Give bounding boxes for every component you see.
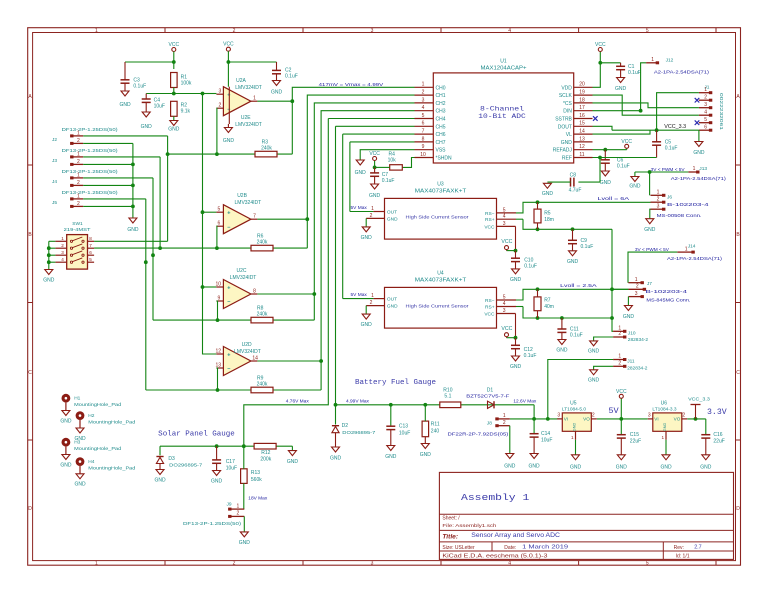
svg-text:R11: R11 xyxy=(431,421,440,427)
svg-text:J13: J13 xyxy=(699,166,707,172)
svg-text:5: 5 xyxy=(646,561,649,567)
svg-text:100k: 100k xyxy=(181,81,192,87)
svg-text:+: + xyxy=(227,211,230,217)
svg-text:18m: 18m xyxy=(544,217,554,223)
svg-text:3: 3 xyxy=(503,221,506,227)
svg-text:Battery Fuel Gauge: Battery Fuel Gauge xyxy=(355,379,436,387)
svg-text:OUT: OUT xyxy=(387,210,397,216)
svg-text:1: 1 xyxy=(61,236,64,241)
svg-text:CH6: CH6 xyxy=(436,132,446,138)
svg-text:C: C xyxy=(28,370,32,376)
svg-text:1 March 2019: 1 March 2019 xyxy=(522,544,568,550)
svg-text:5: 5 xyxy=(218,207,221,213)
svg-text:4: 4 xyxy=(704,110,707,116)
svg-text:8: 8 xyxy=(253,289,256,295)
svg-text:OUT: OUT xyxy=(387,297,397,303)
svg-text:18: 18 xyxy=(579,97,585,103)
svg-text:5.1: 5.1 xyxy=(444,393,451,399)
svg-text:GND: GND xyxy=(141,124,153,130)
svg-text:VO: VO xyxy=(583,417,590,422)
svg-text:8-Channel: 8-Channel xyxy=(480,106,524,113)
svg-text:17: 17 xyxy=(579,105,585,111)
svg-text:1: 1 xyxy=(253,96,256,102)
svg-text:GND: GND xyxy=(700,465,712,471)
svg-text:LT1084-5.0: LT1084-5.0 xyxy=(562,407,587,413)
svg-text:GND: GND xyxy=(387,304,398,310)
svg-text:B-102203-4: B-102203-4 xyxy=(667,202,709,208)
svg-text:RS+: RS+ xyxy=(485,217,495,223)
svg-text:VCC_3.3: VCC_3.3 xyxy=(688,397,710,403)
svg-text:GND: GND xyxy=(510,277,522,283)
svg-text:R5: R5 xyxy=(544,211,551,217)
svg-text:GND: GND xyxy=(385,454,397,460)
svg-text:C15: C15 xyxy=(630,432,639,438)
svg-text:10: 10 xyxy=(216,281,222,287)
svg-text:VDD: VDD xyxy=(561,85,572,91)
svg-text:MountingHole_Pad: MountingHole_Pad xyxy=(88,466,135,472)
svg-text:1: 1 xyxy=(77,151,80,157)
svg-text:C: C xyxy=(736,370,740,376)
svg-text:2: 2 xyxy=(682,412,685,418)
svg-text:GND: GND xyxy=(529,464,541,470)
svg-text:GND: GND xyxy=(154,478,166,484)
svg-text:6: 6 xyxy=(218,221,221,227)
svg-text:5V: 5V xyxy=(608,406,619,416)
svg-text:0.1uF: 0.1uF xyxy=(133,84,146,90)
svg-text:GND: GND xyxy=(600,180,612,186)
svg-text:J5: J5 xyxy=(52,200,57,206)
svg-text:4: 4 xyxy=(61,257,64,262)
svg-text:5V Max: 5V Max xyxy=(351,205,368,211)
svg-text:RS+: RS+ xyxy=(485,305,495,311)
svg-text:4.99V Max: 4.99V Max xyxy=(346,398,370,404)
svg-text:+: + xyxy=(227,352,230,358)
svg-text:2: 2 xyxy=(233,561,236,567)
svg-text:R7: R7 xyxy=(544,298,551,304)
svg-text:RS−: RS− xyxy=(485,211,495,217)
svg-text:LMV324IDT: LMV324IDT xyxy=(235,85,262,91)
svg-text:GND: GND xyxy=(693,150,705,156)
svg-text:GND: GND xyxy=(644,227,656,233)
svg-text:6: 6 xyxy=(704,125,707,131)
svg-text:U2A: U2A xyxy=(236,78,246,84)
svg-text:3: 3 xyxy=(704,102,707,108)
svg-text:2: 2 xyxy=(219,103,222,109)
svg-text:KiCad E.D.A. eeschema (5.0.1): KiCad E.D.A. eeschema (5.0.1)-3 xyxy=(442,554,547,560)
svg-text:MountingHole_Pad: MountingHole_Pad xyxy=(74,446,121,452)
svg-text:417mV = Vmax = 4.99V: 417mV = Vmax = 4.99V xyxy=(319,82,385,88)
svg-text:Title:: Title: xyxy=(442,534,458,541)
svg-text:12: 12 xyxy=(579,144,585,150)
svg-text:2: 2 xyxy=(704,95,707,101)
svg-text:MountingHole_Pad: MountingHole_Pad xyxy=(88,420,135,426)
svg-text:3.3V: 3.3V xyxy=(707,408,727,417)
svg-text:*CS: *CS xyxy=(563,101,573,107)
svg-text:GND: GND xyxy=(355,170,367,176)
svg-text:2: 2 xyxy=(636,284,639,290)
svg-text:U3: U3 xyxy=(437,182,444,188)
svg-text:J8: J8 xyxy=(487,420,492,426)
svg-text:High Side Current Sensor: High Side Current Sensor xyxy=(406,304,470,309)
svg-text:−: − xyxy=(227,300,230,306)
svg-text:R13: R13 xyxy=(251,470,260,476)
svg-text:H1: H1 xyxy=(74,396,80,402)
svg-text:GND: GND xyxy=(287,459,299,465)
svg-text:GND: GND xyxy=(629,184,641,190)
svg-text:0.1uF: 0.1uF xyxy=(665,145,678,151)
svg-text:C17: C17 xyxy=(226,459,235,465)
svg-text:1: 1 xyxy=(693,166,696,172)
svg-text:VO: VO xyxy=(674,417,681,422)
svg-text:GND: GND xyxy=(43,278,55,284)
svg-text:U6: U6 xyxy=(661,400,668,406)
svg-text:Sensor Array and Servo ADC: Sensor Array and Servo ADC xyxy=(471,533,560,539)
svg-text:0.1uF: 0.1uF xyxy=(617,163,630,169)
svg-text:VCC: VCC xyxy=(223,42,234,48)
svg-text:5: 5 xyxy=(503,207,506,213)
svg-text:1: 1 xyxy=(77,172,80,178)
svg-text:VCC: VCC xyxy=(484,312,495,318)
svg-text:1: 1 xyxy=(635,277,638,283)
svg-text:DF13-2P-1.25DS(50): DF13-2P-1.25DS(50) xyxy=(62,190,118,196)
svg-text:VCC: VCC xyxy=(169,42,180,48)
svg-text:VL: VL xyxy=(566,132,572,138)
svg-text:U2E: U2E xyxy=(241,115,251,121)
svg-text:GND: GND xyxy=(623,314,635,320)
svg-text:GND: GND xyxy=(387,216,398,222)
svg-text:GND: GND xyxy=(239,540,251,546)
svg-text:DF13-2P-1.25DS(50): DF13-2P-1.25DS(50) xyxy=(62,127,118,133)
svg-text:10k: 10k xyxy=(388,158,397,164)
svg-text:LT1084-3.3: LT1084-3.3 xyxy=(652,407,677,413)
svg-text:J4: J4 xyxy=(52,179,57,185)
svg-text:GND: GND xyxy=(211,479,223,485)
svg-text:4: 4 xyxy=(508,28,511,34)
svg-text:22uF: 22uF xyxy=(713,439,724,445)
svg-text:3: 3 xyxy=(648,412,651,418)
svg-text:U1: U1 xyxy=(500,59,507,65)
svg-text:VCC: VCC xyxy=(484,224,495,230)
svg-text:1: 1 xyxy=(618,354,621,360)
svg-text:10uF: 10uF xyxy=(541,438,552,444)
svg-text:MS-845MG Conn.: MS-845MG Conn. xyxy=(646,298,690,304)
svg-text:200k: 200k xyxy=(260,456,271,462)
svg-text:2: 2 xyxy=(592,412,595,418)
svg-text:0.1uF: 0.1uF xyxy=(628,70,641,76)
svg-text:2: 2 xyxy=(77,180,80,186)
svg-text:0.1uF: 0.1uF xyxy=(524,353,537,359)
svg-text:5: 5 xyxy=(422,113,425,119)
svg-text:GND: GND xyxy=(561,140,573,146)
svg-text:5V Max: 5V Max xyxy=(351,292,368,298)
svg-text:J9: J9 xyxy=(227,501,232,507)
svg-text:C13: C13 xyxy=(399,424,408,430)
svg-text:GND: GND xyxy=(663,423,667,432)
svg-text:13: 13 xyxy=(216,362,222,368)
svg-text:H2: H2 xyxy=(88,413,94,419)
svg-text:J14: J14 xyxy=(688,243,696,249)
svg-text:DO296895-7: DO296895-7 xyxy=(342,430,375,436)
svg-text:240k: 240k xyxy=(257,311,268,317)
svg-text:0.1uF: 0.1uF xyxy=(524,263,537,269)
svg-text:0.1uF: 0.1uF xyxy=(570,333,583,339)
svg-text:GND: GND xyxy=(556,348,568,354)
svg-text:10: 10 xyxy=(420,152,426,158)
svg-text:U2B: U2B xyxy=(237,193,247,199)
svg-text:GND: GND xyxy=(588,378,600,384)
svg-text:2: 2 xyxy=(422,90,425,96)
svg-text:2: 2 xyxy=(77,138,80,144)
svg-text:DO296895-7: DO296895-7 xyxy=(169,462,202,468)
svg-text:5: 5 xyxy=(89,257,92,262)
svg-text:J12: J12 xyxy=(666,58,674,64)
svg-text:0.1uF: 0.1uF xyxy=(285,74,298,80)
svg-text:0.1uF: 0.1uF xyxy=(581,244,594,250)
svg-text:7: 7 xyxy=(89,243,92,248)
svg-text:13: 13 xyxy=(579,136,585,142)
svg-text:VCC: VCC xyxy=(501,239,512,245)
svg-text:D: D xyxy=(736,506,740,512)
svg-text:9: 9 xyxy=(422,144,425,150)
svg-text:GND: GND xyxy=(615,86,627,92)
svg-text:LMV324IDT: LMV324IDT xyxy=(234,349,261,355)
svg-text:J10: J10 xyxy=(628,330,636,336)
svg-text:GND: GND xyxy=(588,349,600,355)
svg-text:A2-1PA-2.54DSA(71): A2-1PA-2.54DSA(71) xyxy=(654,70,709,76)
svg-text:3: 3 xyxy=(422,97,425,103)
svg-text:2.7: 2.7 xyxy=(694,544,702,550)
svg-text:U2C: U2C xyxy=(237,268,247,274)
svg-text:2: 2 xyxy=(370,300,373,306)
svg-text:GND: GND xyxy=(361,235,373,241)
svg-text:19: 19 xyxy=(579,90,585,96)
svg-text:C14: C14 xyxy=(541,431,550,437)
svg-text:10uF: 10uF xyxy=(399,431,410,437)
svg-text:SSTRB: SSTRB xyxy=(555,117,572,123)
svg-text:CH4: CH4 xyxy=(436,117,446,123)
svg-text:GND: GND xyxy=(573,423,577,432)
svg-text:1: 1 xyxy=(422,82,425,88)
svg-text:2: 2 xyxy=(503,420,506,426)
svg-text:MAX4073FAXK+T: MAX4073FAXK+T xyxy=(415,278,467,284)
svg-text:BZT52C7V5-7-F: BZT52C7V5-7-F xyxy=(466,393,509,399)
svg-text:8: 8 xyxy=(422,136,425,142)
svg-text:C5: C5 xyxy=(665,139,672,145)
svg-text:10uF: 10uF xyxy=(154,104,165,110)
svg-text:CH7: CH7 xyxy=(436,140,446,146)
svg-text:Size: USLetter: Size: USLetter xyxy=(442,545,475,551)
svg-text:−: − xyxy=(227,367,230,373)
svg-text:U5: U5 xyxy=(570,400,577,406)
svg-text:1: 1 xyxy=(95,28,98,34)
svg-text:GND: GND xyxy=(542,191,554,197)
svg-text:Id: 1/1: Id: 1/1 xyxy=(676,554,690,560)
svg-text:5: 5 xyxy=(503,294,506,300)
svg-text:REF: REF xyxy=(562,156,572,162)
svg-text:VCC: VCC xyxy=(501,326,512,332)
svg-text:GND: GND xyxy=(330,456,342,462)
svg-text:1: 1 xyxy=(571,435,574,440)
svg-text:D2: D2 xyxy=(342,423,349,429)
svg-text:DF13-2P-1.25DS(50): DF13-2P-1.25DS(50) xyxy=(62,148,118,154)
svg-text:DF22R-2P-7.92DS(05): DF22R-2P-7.92DS(05) xyxy=(448,431,509,437)
svg-text:H4: H4 xyxy=(88,459,94,465)
svg-text:GND: GND xyxy=(420,452,432,458)
svg-text:2: 2 xyxy=(237,511,240,517)
svg-text:GND: GND xyxy=(60,462,72,468)
svg-text:File: Assembly1.sch: File: Assembly1.sch xyxy=(442,523,496,529)
svg-text:GND: GND xyxy=(567,259,579,265)
svg-text:Lvoll = 2.5A: Lvoll = 2.5A xyxy=(560,283,598,289)
svg-text:560k: 560k xyxy=(251,477,262,483)
svg-text:GND: GND xyxy=(570,465,582,471)
svg-text:VCC_3.3: VCC_3.3 xyxy=(664,124,686,130)
svg-text:Sheet: /: Sheet: / xyxy=(442,516,460,522)
svg-text:2: 2 xyxy=(618,331,621,337)
svg-text:4.76V Max: 4.76V Max xyxy=(286,398,310,404)
svg-text:6: 6 xyxy=(89,250,92,255)
svg-text:LMV324IDT: LMV324IDT xyxy=(235,200,262,206)
svg-text:GND: GND xyxy=(60,418,72,424)
svg-text:1: 1 xyxy=(657,190,660,196)
svg-text:1: 1 xyxy=(77,193,80,199)
svg-text:10uF: 10uF xyxy=(226,465,237,471)
svg-text:J11: J11 xyxy=(627,359,635,365)
svg-text:9.1k: 9.1k xyxy=(181,109,191,115)
svg-text:6: 6 xyxy=(422,121,425,127)
svg-text:2: 2 xyxy=(657,196,660,202)
svg-text:1: 1 xyxy=(651,57,654,63)
svg-text:16: 16 xyxy=(579,113,585,119)
svg-text:40m: 40m xyxy=(544,304,554,310)
svg-text:3: 3 xyxy=(503,308,506,314)
svg-text:D1: D1 xyxy=(487,387,494,393)
svg-text:0022232061: 0022232061 xyxy=(719,93,724,131)
svg-text:5: 5 xyxy=(704,117,707,123)
svg-text:GND: GND xyxy=(223,138,235,144)
svg-text:240k: 240k xyxy=(261,145,272,151)
svg-text:U2D: U2D xyxy=(242,342,252,348)
svg-text:CH5: CH5 xyxy=(436,124,446,130)
svg-text:GND: GND xyxy=(504,464,516,470)
svg-text:VSS: VSS xyxy=(436,148,447,154)
svg-text:282834-2: 282834-2 xyxy=(627,365,648,371)
svg-text:A2-1PA-2.54DSA(71): A2-1PA-2.54DSA(71) xyxy=(667,256,722,262)
svg-text:GND: GND xyxy=(660,465,672,471)
svg-text:8: 8 xyxy=(89,236,92,241)
svg-text:4: 4 xyxy=(503,214,506,220)
svg-text:VI: VI xyxy=(564,417,568,422)
svg-text:3: 3 xyxy=(219,89,222,95)
svg-text:MountingHole_Pad: MountingHole_Pad xyxy=(74,402,121,408)
svg-text:DOUT: DOUT xyxy=(558,124,572,130)
svg-text:C8: C8 xyxy=(570,172,577,178)
svg-text:MS-00508 Conn.: MS-00508 Conn. xyxy=(657,213,702,219)
svg-text:VCC: VCC xyxy=(616,389,627,395)
svg-text:+: + xyxy=(227,285,230,291)
svg-text:CH2: CH2 xyxy=(436,101,446,107)
svg-text:Solar Panel Gauge: Solar Panel Gauge xyxy=(158,430,235,438)
svg-text:DIN: DIN xyxy=(563,109,572,115)
svg-text:7: 7 xyxy=(253,214,256,220)
svg-text:B-102203-4: B-102203-4 xyxy=(646,289,688,295)
svg-text:VCC: VCC xyxy=(621,139,632,145)
svg-text:3: 3 xyxy=(657,203,660,209)
svg-text:0.1uF: 0.1uF xyxy=(382,178,395,184)
svg-text:12: 12 xyxy=(216,348,222,354)
svg-text:2: 2 xyxy=(61,243,64,248)
svg-text:J2: J2 xyxy=(52,137,57,143)
svg-text:1: 1 xyxy=(237,503,240,509)
svg-text:14: 14 xyxy=(252,356,258,362)
svg-text:1: 1 xyxy=(662,435,665,440)
svg-text:Assembly 1: Assembly 1 xyxy=(461,492,530,503)
svg-text:GND: GND xyxy=(361,322,373,328)
svg-text:GND: GND xyxy=(119,102,131,108)
svg-text:18V Max: 18V Max xyxy=(248,496,268,502)
svg-text:4.7uF: 4.7uF xyxy=(569,187,582,193)
svg-text:240: 240 xyxy=(431,428,440,434)
svg-text:D3: D3 xyxy=(168,456,175,462)
svg-text:J6: J6 xyxy=(667,194,672,200)
svg-text:C16: C16 xyxy=(713,432,722,438)
svg-text:1: 1 xyxy=(77,130,80,136)
svg-text:Rev:: Rev: xyxy=(674,545,684,551)
svg-text:3: 3 xyxy=(635,291,638,297)
svg-text:2: 2 xyxy=(77,159,80,165)
svg-text:D: D xyxy=(28,506,32,512)
svg-text:SW1: SW1 xyxy=(72,221,83,227)
svg-text:GND: GND xyxy=(127,227,139,233)
svg-text:4: 4 xyxy=(422,105,425,111)
svg-text:219-4MST: 219-4MST xyxy=(64,227,91,233)
svg-text:1: 1 xyxy=(503,413,506,419)
svg-text:DF13-2P-1.25DS(50): DF13-2P-1.25DS(50) xyxy=(62,169,118,175)
svg-text:DF13-2P-1.25DS(50): DF13-2P-1.25DS(50) xyxy=(183,521,242,527)
svg-text:U4: U4 xyxy=(437,271,444,277)
svg-text:H3: H3 xyxy=(74,440,80,446)
svg-text:3: 3 xyxy=(371,561,374,567)
svg-text:*SHDN: *SHDN xyxy=(436,156,453,162)
svg-text:GND: GND xyxy=(616,465,628,471)
svg-text:20: 20 xyxy=(579,82,585,88)
svg-text:−: − xyxy=(227,225,230,231)
svg-text:Date:: Date: xyxy=(504,545,516,551)
svg-text:GND: GND xyxy=(271,89,283,95)
svg-text:CH0: CH0 xyxy=(436,85,446,91)
svg-text:15: 15 xyxy=(579,121,585,127)
svg-text:RS−: RS− xyxy=(485,298,495,304)
svg-text:GND: GND xyxy=(369,193,381,199)
svg-text:GND: GND xyxy=(74,482,86,488)
svg-text:VCC: VCC xyxy=(369,151,380,157)
svg-text:LMV324IDT: LMV324IDT xyxy=(230,275,257,281)
svg-text:3: 3 xyxy=(557,412,560,418)
svg-text:LMV324IDT: LMV324IDT xyxy=(235,122,262,128)
svg-text:High Side Current Sensor: High Side Current Sensor xyxy=(406,215,470,220)
svg-text:14: 14 xyxy=(579,129,585,135)
svg-text:2: 2 xyxy=(370,213,373,219)
svg-text:12.6V Max: 12.6V Max xyxy=(513,399,537,405)
svg-text:CH1: CH1 xyxy=(436,93,446,99)
svg-text:1: 1 xyxy=(95,561,98,567)
svg-text:5: 5 xyxy=(646,28,649,34)
svg-text:240k: 240k xyxy=(257,239,268,245)
svg-text:10-Bit ADC: 10-Bit ADC xyxy=(478,113,526,120)
svg-text:22uF: 22uF xyxy=(630,439,641,445)
svg-text:4: 4 xyxy=(503,301,506,307)
svg-text:Lvoll = 6A: Lvoll = 6A xyxy=(598,196,631,202)
